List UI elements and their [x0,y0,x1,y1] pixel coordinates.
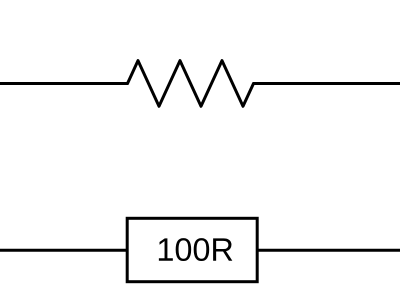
wire: bottom left lead [0,249,130,252]
resistor R1 (zigzag symbol) [128,61,254,107]
wire: top right lead [253,82,400,85]
wire: bottom right lead [255,249,400,252]
value label 100R [159,238,232,261]
resistor R2 (box symbol) [127,218,257,281]
wire: top left lead [0,82,129,85]
